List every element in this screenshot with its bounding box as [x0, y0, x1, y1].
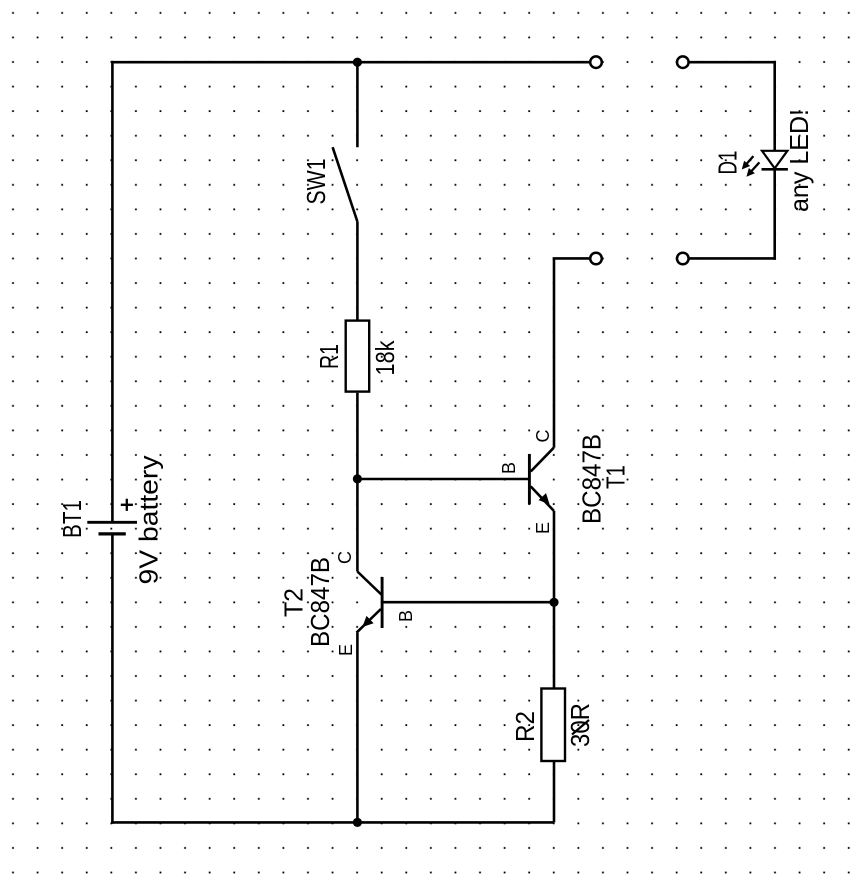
wire T2 collector up to junction: [356, 479, 359, 572]
wire top right pin to LED branch: [689, 61, 776, 64]
value 18k: [370, 340, 400, 376]
pin label E (T2): [336, 644, 356, 656]
label SW1: [301, 159, 331, 205]
svg-text:C: C: [335, 551, 355, 564]
pin circle top right: [677, 56, 689, 68]
wire left rail battery negative plate down to bottom rail: [111, 535, 114, 823]
resistor R1: [346, 321, 370, 392]
pin label B (T1): [499, 462, 519, 474]
pin circle lower left: [590, 253, 602, 265]
svg-text:T1: T1: [601, 465, 631, 489]
svg-text:R1: R1: [314, 344, 344, 369]
node junction R1/T1 base/T2 collector: [353, 474, 362, 483]
wire to left pin circle (lower pair): [553, 257, 589, 260]
pin circle lower right: [677, 253, 689, 265]
label BC847B (T2): [305, 557, 335, 647]
svg-text:30R: 30R: [565, 703, 595, 747]
battery BT1: [87, 499, 137, 534]
pin label E (T1): [533, 522, 553, 534]
wire T2 base: [383, 601, 554, 604]
label BC847B (T1): [577, 434, 607, 524]
wire T1 collector up to pin: [553, 258, 556, 447]
wire bottom rail: [111, 821, 554, 824]
node junction T1 emitter / T2 base / R2: [549, 598, 558, 607]
label T1: [601, 465, 631, 489]
pin circle top left: [590, 56, 602, 68]
wire T1 base: [357, 478, 528, 481]
transistor T1 BC847B: [529, 448, 554, 511]
svg-text:18k: 18k: [370, 340, 400, 376]
wire LED branch down to anode: [773, 61, 776, 151]
pin label C (T1): [533, 430, 553, 443]
svg-text:E: E: [533, 522, 553, 534]
pin label B (T2): [396, 610, 416, 622]
node junction bottom rail: [353, 818, 362, 827]
svg-text:BT1: BT1: [57, 500, 87, 538]
svg-text:SW1: SW1: [301, 159, 331, 205]
value 9V battery: [134, 456, 164, 585]
value 30R: [565, 703, 595, 747]
resistor R2: [541, 689, 565, 762]
label D1: [713, 151, 743, 175]
svg-text:D1: D1: [713, 151, 743, 175]
svg-text:any LED!: any LED!: [784, 109, 814, 212]
wire junction down to R2: [553, 602, 556, 688]
wire switch to R1: [356, 222, 359, 320]
label BT1: [57, 500, 87, 538]
svg-text:B: B: [499, 462, 519, 474]
LED D1: [743, 151, 788, 176]
transistor T2 BC847B: [357, 572, 383, 633]
svg-text:T2: T2: [279, 588, 309, 617]
svg-text:9V battery: 9V battery: [134, 456, 164, 585]
svg-text:R2: R2: [510, 711, 540, 742]
svg-text:E: E: [336, 644, 356, 656]
wire LED branch bottom to lower right pin: [689, 257, 776, 260]
node junction top (SW1 branch): [353, 58, 362, 67]
value any LED!: [784, 109, 814, 212]
svg-text:C: C: [533, 430, 553, 443]
wire R2 to bottom rail: [553, 761, 556, 822]
wire R1 to junction: [356, 393, 359, 479]
label R2: [510, 711, 540, 742]
svg-text:B: B: [396, 610, 416, 622]
wire T1 emitter down to junction: [553, 511, 556, 602]
switch SW1 blade: [333, 147, 358, 221]
wire LED cathode down: [773, 168, 776, 259]
wire left rail down to battery positive plate: [111, 61, 114, 521]
label T2: [279, 588, 309, 617]
label R1: [314, 344, 344, 369]
pin label C (T2): [335, 551, 355, 564]
wire T2 emitter down to bottom rail: [356, 633, 359, 823]
wire top rail from left corner to pin circle: [111, 61, 590, 64]
wire from top rail down to switch: [356, 62, 359, 147]
svg-text:BC847B: BC847B: [305, 557, 335, 647]
